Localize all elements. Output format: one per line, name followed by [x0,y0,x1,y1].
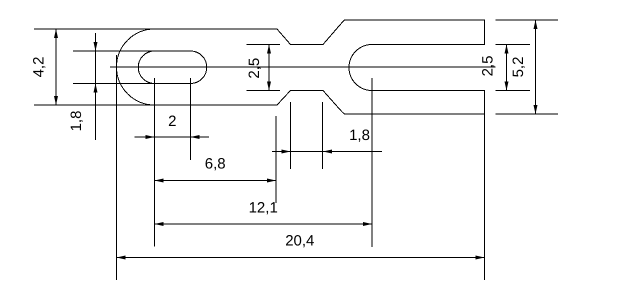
dimension 2 extension line right [190,78,192,160]
dimension 2,5 right extension line bottom [496,90,531,92]
svg-text:5,2: 5,2 [510,57,527,78]
slot (obround hole) [138,51,207,84]
dimension 20,4 arrows [117,256,485,260]
svg-text:4,2: 4,2 [31,57,48,78]
part outline [117,20,485,114]
dimension 2,5 middle extension line top [247,44,281,46]
dimension 1,8 middle arrows [282,150,333,154]
dimension 12,1 extension line right [371,78,373,247]
svg-text:20,4: 20,4 [285,233,314,250]
dimension 2,5 right line [506,45,508,91]
dimension 2 arrows [146,135,200,139]
dimension 1,8 middle line [272,151,382,153]
dimension 1,8 left extension line top [73,50,155,52]
dimension 20,4 line [117,257,485,259]
svg-text:12,1: 12,1 [249,200,278,217]
dimension 6,8 extension line right [275,116,277,203]
svg-text:2,5: 2,5 [480,56,497,77]
dimension 12,1 arrows [155,222,373,226]
dimension 2 extension line left [154,78,156,247]
dimension 1,8 middle extension line right [322,102,324,169]
svg-text:1,8: 1,8 [349,127,370,144]
dimension 1,8 left line [95,33,97,140]
dimension 2,5 right arrows [505,45,509,91]
dimension 5,2 arrows [534,20,538,114]
dimension 2,5 middle arrows [267,45,271,91]
dimension 5,2 extension line top [496,19,559,21]
dimension 5,2 extension line bottom [496,113,559,115]
svg-text:2,5: 2,5 [246,58,263,79]
dimension 12,1 line [155,223,373,225]
dimension 2,5 middle line [268,45,270,91]
dimension 2,5 middle extension line bottom [247,90,281,92]
dimension 6,8 arrows [155,179,277,183]
centerline [110,66,496,68]
dimension 4,2 extension line top [34,28,155,30]
svg-text:6,8: 6,8 [205,156,226,173]
dimension 1,8 left arrows [94,42,98,93]
dimension 2,5 right extension line top [496,44,531,46]
dimension 1,8 middle extension line left [290,102,292,169]
dimension 5,2 line [535,20,537,114]
dimension 4,2 extension line bottom [34,104,155,106]
dimension 6,8 line [155,180,277,182]
dimension 1,8 left extension line bottom [73,83,155,85]
dimension 4,2 arrows [54,29,58,105]
svg-text:2: 2 [168,113,176,130]
dimension 4,2 line [55,29,57,105]
dimension 20,4 extension line left [116,55,118,280]
dimension 20,4 extension line right [484,114,486,280]
dimension 2 line [135,136,210,138]
svg-text:1,8: 1,8 [68,111,85,132]
